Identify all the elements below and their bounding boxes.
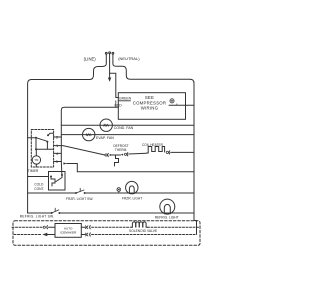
timer terminal 4 wire [54,152,62,154]
defrost row right connector [124,153,127,156]
ground wire from plug middle prong [109,62,111,78]
right rail jog to solenoid branch [194,221,197,235]
freezer light switch [75,188,86,194]
svg-text:COIL HEATER: COIL HEATER [142,143,164,147]
cond fan motor M1 [100,119,112,131]
label RED terminal [115,101,123,108]
svg-text:FRZR. LIGHT SW.: FRZR. LIGHT SW. [66,197,93,201]
compressor box [118,93,185,120]
svg-text:COLD: COLD [34,182,44,186]
plug prong LINE [105,52,107,61]
timer contact node D [35,148,37,150]
wire 3 to right rail [67,164,194,172]
defrost row node [109,154,111,156]
evap fan motor M2 [83,128,95,140]
wire switch to refrig lamp [59,212,194,214]
right rail (NEUTRAL) with rounded top corner [190,79,194,220]
cold control node left [50,176,52,178]
ground symbol freezer light [117,188,121,193]
defrost thermostat tail [115,155,119,166]
green wire branch to compressor [110,73,119,97]
timer terminal 2 wire [54,136,62,138]
svg-text:GREEN: GREEN [119,97,132,101]
icemaker row1 dashed lead left [12,226,43,228]
plug prong NEUTRAL [112,52,114,61]
refrig light wire [28,212,52,214]
auto icemaker box [55,224,81,238]
label DEFROST THERM. [113,144,128,152]
arrow connector on wire 3 [63,162,66,164]
cold control node right [61,174,63,176]
coil heater connector [166,151,170,154]
label SEE COMPRESSOR WIRING [133,95,167,110]
icemaker row1 left connector [43,226,55,229]
timer motor TM [32,156,40,164]
wire heater to right rail [171,151,194,153]
wire left rail to timer node A [28,137,36,139]
defrost row left connector [105,153,108,156]
freezer lamp [126,181,138,193]
timer box (dashed) [31,130,53,168]
wire terminal 3 down to cold control [60,162,63,176]
defrost row node 2 [121,154,123,156]
dashed wire row1 to solenoid [92,226,132,228]
wire defrost to heater [129,152,147,155]
icemaker row2 right connector [81,233,90,236]
timer terminal 1 wire to defrost row (diagonal) [54,146,105,155]
left rail (LINE) with rounded top corner [28,80,32,214]
red wire from compressor to mid rail [61,107,118,161]
svg-text:(NEUTRAL): (NEUTRAL) [118,56,140,61]
wire left rail to cold control [28,176,49,178]
svg-text:FRZR. LIGHT: FRZR. LIGHT [122,196,142,200]
wire from compressor ground to right rail [169,104,194,106]
svg-text:EVAP. FAN: EVAP. FAN [96,136,114,140]
svg-text:REFRIG. LIGHT SW.: REFRIG. LIGHT SW. [20,214,55,218]
wire cond fan row [61,124,194,126]
coil heater element [147,147,165,154]
wire switch to freezer lamp [85,192,194,194]
timer wire B up elbow [48,133,54,135]
svg-text:(LINE): (LINE) [84,56,97,61]
defrost thermostat [110,154,120,156]
svg-text:THERM.: THERM. [115,148,127,152]
svg-text:REFRIG. LIGHT: REFRIG. LIGHT [155,216,179,220]
ground symbol in compressor box [170,99,178,106]
timer contact node B [47,134,49,136]
refrig light switch [51,208,61,214]
timer wire C down [46,142,48,150]
wire LINE from plug to left rail [32,62,107,80]
label COLD CONT. [34,182,44,191]
svg-text:CONT.: CONT. [34,187,44,191]
svg-text:SEE: SEE [145,95,154,100]
timer switch blade A-C [36,138,47,142]
refrig lamp [160,199,175,214]
wire TM bottom [35,164,37,167]
icemaker row1 right connector [81,226,90,229]
cold control sensor element [51,177,55,187]
wire NEUTRAL from plug to right rail [113,62,190,80]
svg-text:TIMER: TIMER [28,169,39,173]
timer contact node C [46,141,48,143]
timer contact node A [35,137,37,139]
dashed wire solenoid to right [148,226,201,228]
cold control switch blade [56,175,62,182]
icemaker dashed enclosure [13,221,200,246]
dashed wire row2 to right [92,234,197,236]
svg-text:SOLENOID VALVE: SOLENOID VALVE [129,229,158,233]
wire evap fan row [61,134,194,136]
svg-text:TM: TM [34,158,39,162]
cold control box [49,172,66,191]
ground arrow [108,78,111,82]
freezer light wire [28,192,76,194]
wire TM top [35,149,37,155]
plug prong ground [109,52,111,62]
svg-text:COND. FAN: COND. FAN [114,126,134,130]
label AUTO ICEMAKER [60,226,77,234]
timer wire A down to D [35,138,37,150]
timer wire D right [36,148,54,150]
icemaker row2 arrow connector [14,233,55,236]
solenoid coil [132,222,148,227]
svg-text:WIRING: WIRING [141,105,159,110]
svg-text:ICEMAKER: ICEMAKER [60,231,77,235]
timer terminal 3 wire [54,161,62,163]
label GREEN terminal [118,97,131,101]
